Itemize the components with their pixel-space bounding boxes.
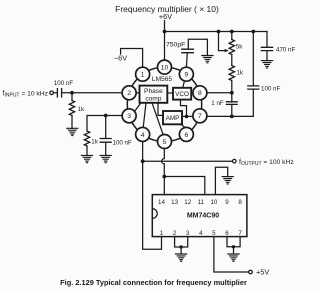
wire fOUTPUT — [143, 160, 233, 162]
wire pin 2 to phase comp — [136, 92, 139, 94]
junction pin 11 branch — [162, 175, 166, 179]
svg-text:9: 9 — [225, 199, 229, 206]
svg-text:5: 5 — [212, 230, 216, 237]
svg-text:1k: 1k — [237, 70, 244, 77]
svg-text:LM565: LM565 — [152, 76, 172, 83]
svg-text:8: 8 — [238, 199, 242, 206]
junction C7 on rail — [251, 30, 255, 34]
svg-text:10: 10 — [210, 199, 217, 206]
capacitor C-vco 1 nF — [231, 93, 233, 102]
svg-text:1 nF: 1 nF — [211, 100, 224, 107]
svg-text:AMP: AMP — [166, 115, 180, 122]
pin 9 — [179, 67, 193, 81]
svg-text:2: 2 — [173, 230, 177, 237]
capacitor C-supply 470 nF — [266, 32, 268, 48]
ground pins 2-3 — [176, 254, 187, 261]
svg-text:7: 7 — [238, 230, 242, 237]
resistor R-in 1k — [71, 93, 73, 101]
wire pin 5 down to counter pin 14 with hop — [162, 149, 165, 195]
svg-text:100 nF: 100 nF — [54, 80, 73, 87]
svg-text:Fig. 2.129 Typical connection: Fig. 2.129 Typical connection for freque… — [60, 278, 247, 287]
junction pin 8 node — [230, 91, 234, 95]
svg-text:1k: 1k — [78, 106, 85, 113]
svg-text:6: 6 — [225, 230, 229, 237]
capacitor C3 100 nF — [105, 116, 107, 139]
svg-text:3: 3 — [127, 113, 131, 120]
svg-text:6: 6 — [185, 132, 189, 139]
junction VCO output — [185, 115, 189, 119]
pin 10 — [158, 60, 172, 74]
junction 5k top on rail — [230, 30, 234, 34]
node fOUTPUT terminal — [233, 159, 237, 163]
AMP box — [163, 111, 182, 124]
wire phase comp to pin 4 — [143, 103, 146, 128]
svg-text:+5V: +5V — [256, 268, 269, 277]
potentiometer R5k — [231, 32, 233, 40]
wire stem to ground — [180, 247, 182, 254]
notch — [152, 209, 157, 219]
ground pin 10 — [222, 177, 233, 184]
svg-text:VCO: VCO — [175, 91, 189, 98]
svg-text:100 nF: 100 nF — [113, 139, 132, 146]
wire counter pins 2,3 to ground — [175, 237, 188, 247]
wire phase comp to VCO — [167, 92, 173, 94]
svg-text:11: 11 — [198, 199, 205, 206]
node fINPUT terminal — [50, 91, 54, 95]
wire +6V vertical to pin 10 — [164, 21, 166, 61]
svg-text:8: 8 — [198, 90, 202, 97]
wire pin 7 — [207, 115, 253, 117]
svg-text:5: 5 — [163, 139, 167, 146]
svg-text:7: 7 — [198, 113, 202, 120]
node +5V terminal — [249, 270, 253, 274]
svg-text:2: 2 — [127, 90, 131, 97]
svg-text:14: 14 — [158, 199, 165, 206]
wire 1k to pin 8 node — [231, 81, 233, 93]
svg-text:3: 3 — [186, 230, 190, 237]
pin 4 — [136, 127, 150, 141]
wire counter pin 5 to +5V — [214, 237, 249, 272]
svg-text:1k: 1k — [91, 139, 98, 146]
svg-text:−6V: −6V — [114, 54, 127, 63]
junction pins 2-3 ground — [179, 245, 182, 248]
pin 1 — [136, 67, 150, 81]
wire pin 3 to phase comp — [135, 103, 141, 112]
pin 5 — [158, 135, 172, 149]
pin 2 — [122, 86, 136, 100]
svg-text:5k: 5k — [236, 43, 243, 50]
svg-text:1: 1 — [141, 72, 145, 79]
wire wiper of 5k pot — [219, 32, 226, 51]
svg-text:750pF: 750pF — [166, 41, 185, 48]
svg-text:13: 13 — [171, 199, 178, 206]
svg-text:470 nF: 470 nF — [276, 47, 295, 54]
junction +6V rail — [163, 30, 167, 34]
pin 7 — [193, 109, 207, 123]
wire 750pF top plate to ground — [188, 39, 207, 55]
wire pin 9 to VCO — [183, 81, 185, 88]
resistor R1k timing — [229, 66, 234, 81]
junction wiper tap on rail — [217, 30, 221, 34]
svg-text:1: 1 — [160, 230, 164, 237]
wire counter pins 6,7 to ground — [227, 237, 240, 247]
wire pin 3 node — [87, 116, 122, 132]
wire VCO to pin 8 — [191, 92, 193, 94]
svg-text:12: 12 — [184, 199, 191, 206]
svg-text:MM74C90: MM74C90 — [187, 212, 219, 219]
wire AMP to pin 7 — [182, 115, 193, 117]
phase comparator box — [140, 86, 168, 103]
wire R3 to ground — [86, 146, 88, 155]
svg-text:comp: comp — [145, 96, 161, 103]
svg-text:Phase: Phase — [144, 88, 163, 95]
wire 5k to 1k — [231, 55, 233, 66]
svg-text:+6V: +6V — [159, 12, 172, 21]
svg-text:9: 9 — [185, 72, 189, 79]
wire phase comp to pin 5 — [152, 103, 163, 135]
op-amp U1 LM565 package outline — [127, 67, 201, 141]
junction pin 3 node — [104, 114, 108, 118]
ground R3 — [81, 155, 92, 162]
wire VCO output down — [181, 100, 187, 117]
svg-text:10: 10 — [161, 65, 169, 72]
wiper arrowhead — [225, 49, 229, 52]
svg-text:100 nF: 100 nF — [261, 85, 280, 92]
capacitor C7 100 nF — [252, 89, 254, 116]
junction pins 6-7 ground — [232, 245, 235, 248]
wire pin 8 — [207, 92, 232, 94]
junction input node — [70, 91, 74, 95]
ground 750pF — [202, 56, 213, 63]
junction fOUTPUT tap — [141, 159, 145, 163]
resistor R3 1k — [84, 131, 89, 146]
wire capacitor to pin 2 — [62, 92, 123, 94]
ground input — [67, 128, 78, 135]
wire +6V rail — [165, 31, 268, 33]
wire branch to counter pin 11 — [164, 177, 205, 195]
pin 8 — [193, 86, 207, 100]
ground C3 — [100, 155, 111, 162]
wire input terminal to capacitor — [54, 92, 58, 94]
wire resistor to ground — [71, 116, 73, 129]
ground pins 6-7 — [228, 254, 239, 261]
wire 750pF to pin 9 — [185, 53, 188, 67]
wire pin 6 to AMP — [181, 124, 185, 127]
junction pin 7 node — [230, 115, 234, 119]
svg-text:4: 4 — [199, 230, 203, 237]
pin 6 — [179, 127, 193, 141]
svg-text:4: 4 — [141, 132, 145, 139]
wire pin 1 to -6V — [121, 49, 143, 68]
VCO box — [173, 88, 191, 100]
counter U2 MM74C90 — [152, 195, 247, 237]
wire pin 4 down to counter pin 1 — [143, 141, 162, 249]
wire phase comp output to AMP — [158, 103, 163, 116]
wire stem to ground — [233, 247, 235, 254]
capacitor C-in 100 nF — [57, 89, 61, 97]
ground 470 nF — [261, 61, 272, 68]
wire counter pin 10 to ground — [215, 167, 227, 194]
pin 3 — [122, 109, 136, 123]
